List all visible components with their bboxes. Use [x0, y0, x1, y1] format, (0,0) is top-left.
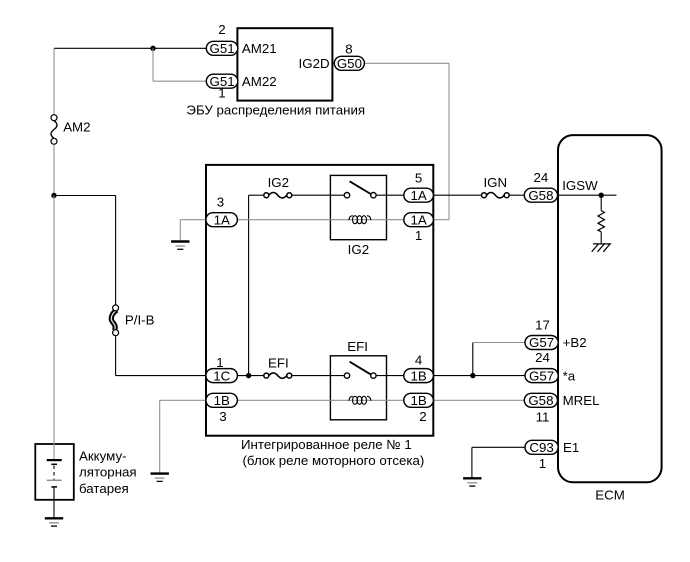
- wire EFI coil row: [237, 399, 403, 401]
- pin G51 AM22: [206, 74, 238, 89]
- svg-text:1A: 1A: [410, 188, 426, 203]
- svg-text:1B: 1B: [410, 393, 426, 408]
- svg-text:*a: *a: [563, 369, 576, 384]
- svg-text:MREL: MREL: [563, 393, 600, 408]
- ground relay pin 1B-3: [151, 474, 169, 482]
- svg-text:Аккуму-: Аккуму-: [79, 449, 127, 464]
- wire junction to battery: [53, 196, 55, 461]
- node +B2 junction: [470, 373, 475, 378]
- wire battery top feed horizontal: [54, 47, 206, 49]
- svg-text:E1: E1: [563, 440, 579, 455]
- svg-text:1A: 1A: [214, 212, 230, 227]
- wire MREL row: [433, 399, 525, 401]
- svg-text:G58: G58: [528, 188, 553, 203]
- battery dashed cell link: [53, 466, 55, 480]
- svg-text:G57: G57: [529, 368, 554, 383]
- svg-text:1: 1: [539, 456, 546, 471]
- relay coil EFI: [349, 396, 371, 404]
- wire P/I-B to 1C: [116, 336, 207, 376]
- ECM box: [558, 135, 662, 482]
- svg-text:17: 17: [535, 318, 550, 333]
- pin 1B-2: [404, 393, 434, 408]
- wire +B2 branch horizontal: [473, 342, 526, 344]
- wire *a row: [433, 375, 525, 377]
- svg-text:8: 8: [345, 42, 352, 57]
- node EFI junction: [246, 373, 251, 378]
- wire junction to P/I-B: [54, 196, 116, 306]
- relay EFI inner box: [330, 356, 386, 420]
- wire 1C to EFI fuse: [237, 375, 264, 377]
- relay contact IG2: [344, 181, 376, 198]
- svg-text:G51: G51: [210, 41, 235, 56]
- integration relay No.1 box: [206, 165, 433, 436]
- svg-text:5: 5: [415, 171, 422, 186]
- pin 1B-3: [206, 393, 238, 408]
- svg-text:ляторная: ляторная: [79, 465, 137, 480]
- fuse IGN: [482, 193, 510, 198]
- pin C93 E1: [525, 440, 558, 455]
- svg-text:ЭБУ распределения питания: ЭБУ распределения питания: [186, 103, 365, 118]
- svg-text:3: 3: [217, 195, 224, 210]
- wire +B2 branch vertical: [472, 343, 474, 376]
- pin G50 IG2D: [334, 56, 364, 71]
- relay coil IG2: [349, 216, 371, 224]
- battery positive plate 2: [47, 479, 62, 481]
- wire battery to ground: [53, 487, 55, 518]
- wire relay pin1A3 to ground: [180, 220, 206, 242]
- wire IG2 coil row: [237, 219, 403, 221]
- svg-text:P/I-B: P/I-B: [125, 313, 155, 328]
- fuse EFI: [264, 373, 292, 378]
- pin 1A-1: [404, 212, 434, 227]
- pin 1B-4: [404, 368, 434, 383]
- svg-text:ECM: ECM: [595, 488, 625, 503]
- battery box: [35, 444, 74, 500]
- wire relay internal vertical: [248, 195, 250, 375]
- pin G57 +B2: [525, 335, 558, 350]
- svg-text:3: 3: [219, 409, 226, 424]
- wire battery vertical upper: [53, 48, 55, 115]
- chassis ground in ECM: [592, 244, 612, 252]
- pin G58 MREL: [524, 393, 557, 408]
- svg-text:24: 24: [534, 170, 549, 185]
- svg-text:24: 24: [535, 350, 550, 365]
- pin G57 *a: [525, 368, 558, 383]
- wire EFI fuse to switch: [292, 375, 345, 377]
- ground E1: [463, 478, 481, 486]
- wire branch to AM22: [153, 48, 206, 81]
- wire AM2 to junction: [53, 144, 55, 195]
- resistor in ECM: [598, 195, 604, 244]
- ground relay pin 1A-3: [171, 242, 189, 250]
- svg-text:1: 1: [415, 228, 422, 243]
- pin 1A-3: [206, 212, 238, 227]
- svg-text:AM21: AM21: [242, 41, 277, 56]
- svg-text:1A: 1A: [410, 212, 426, 227]
- battery positive plate: [47, 459, 62, 461]
- svg-text:EFI: EFI: [347, 339, 368, 354]
- relay contact EFI: [344, 362, 376, 379]
- node IGSW junction: [599, 193, 604, 198]
- svg-text:G57: G57: [529, 335, 554, 350]
- svg-text:AM22: AM22: [242, 74, 277, 89]
- pin G51 AM21: [206, 41, 238, 56]
- svg-text:AM2: AM2: [63, 120, 90, 135]
- relay IG2 inner box: [330, 175, 386, 239]
- node battery junction: [51, 193, 56, 198]
- svg-text:Интегрированное реле № 1: Интегрированное реле № 1: [241, 437, 412, 452]
- pin G58 IGSW: [524, 188, 557, 203]
- wire EFI switch to pin 1B-4: [376, 375, 404, 377]
- fusible link P/I-B: [111, 305, 118, 336]
- svg-text:1C: 1C: [213, 368, 230, 383]
- wire IG2 fuse to switch: [292, 194, 345, 196]
- fuse IG2: [264, 193, 292, 198]
- svg-text:1B: 1B: [410, 368, 426, 383]
- svg-text:G50: G50: [337, 56, 362, 71]
- svg-text:батарея: батарея: [79, 481, 129, 496]
- wire relay pin1B3 to ground: [160, 400, 207, 473]
- svg-text:11: 11: [536, 410, 550, 425]
- svg-text:C93: C93: [529, 440, 553, 455]
- svg-text:IG2: IG2: [348, 242, 369, 257]
- svg-text:IGN: IGN: [483, 175, 507, 190]
- svg-text:2: 2: [218, 22, 225, 37]
- wire IGSW inside ECM: [558, 194, 617, 196]
- wire IGN row: [433, 194, 481, 196]
- svg-text:+B2: +B2: [563, 335, 587, 350]
- wire IG2 switch to pin 1A-5: [376, 194, 404, 196]
- wire IG2D from G50: [364, 63, 449, 219]
- svg-text:IG2: IG2: [268, 175, 289, 190]
- svg-text:2: 2: [419, 409, 426, 424]
- svg-text:(блок реле моторного отсека): (блок реле моторного отсека): [243, 453, 425, 468]
- svg-text:IG2D: IG2D: [299, 56, 330, 71]
- svg-text:1: 1: [218, 86, 225, 101]
- svg-text:G58: G58: [528, 393, 553, 408]
- battery negative plate 2: [51, 486, 57, 488]
- svg-text:1B: 1B: [214, 393, 230, 408]
- wire E1 to ground: [472, 447, 525, 478]
- pin 1C-1: [206, 368, 238, 383]
- wire IGN to G58: [509, 194, 525, 196]
- svg-text:1: 1: [216, 355, 223, 370]
- svg-text:IGSW: IGSW: [562, 178, 598, 193]
- ground battery: [45, 518, 63, 526]
- wire IG2 fuse feed: [249, 194, 265, 196]
- svg-text:4: 4: [415, 353, 422, 368]
- battery negative plate 1: [51, 463, 57, 465]
- pin 1A-5: [404, 188, 434, 203]
- power distribution ECU box U1: [237, 28, 332, 100]
- svg-text:EFI: EFI: [268, 356, 289, 371]
- fuse AM2: [51, 115, 57, 145]
- node top junction: [150, 46, 155, 51]
